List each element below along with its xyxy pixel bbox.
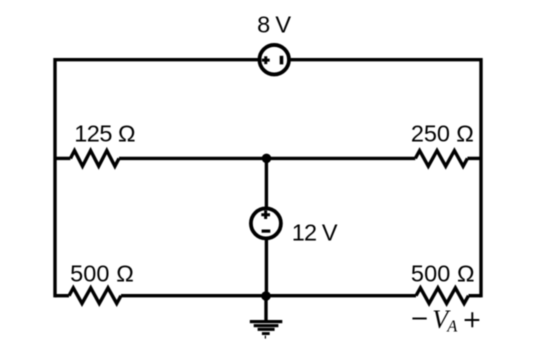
svg-text:8 V: 8 V bbox=[257, 11, 291, 37]
svg-text:12 V: 12 V bbox=[292, 220, 338, 246]
resistor 125 ohm bbox=[70, 151, 119, 167]
plus sign of VA bbox=[465, 312, 480, 327]
wire right rail bbox=[479, 58, 482, 297]
resistor 250 ohm bbox=[415, 151, 467, 167]
svg-text:125 Ω: 125 Ω bbox=[74, 120, 135, 146]
node junction middle bbox=[262, 154, 272, 164]
resistor 500 ohm right bbox=[416, 288, 469, 304]
voltage source 12V bbox=[251, 208, 281, 238]
wire bottom rail left segment bbox=[55, 294, 69, 297]
svg-text:A: A bbox=[446, 317, 458, 336]
wire top rail bbox=[55, 58, 481, 61]
wire bottom rail center segment bbox=[121, 294, 416, 297]
voltage source 8V bbox=[259, 45, 289, 74]
svg-text:500 Ω: 500 Ω bbox=[70, 260, 134, 286]
wire ground stub bbox=[264, 296, 267, 320]
label minus VA plus bbox=[412, 305, 479, 336]
node junction bottom (ground node) bbox=[261, 291, 271, 301]
resistor 500 ohm left bbox=[69, 288, 121, 304]
wire center vertical branch bbox=[265, 158, 268, 295]
wire middle rail left segment bbox=[55, 157, 70, 160]
wire bottom rail right segment bbox=[469, 294, 482, 297]
wire middle rail center segment bbox=[119, 157, 415, 160]
svg-text:500 Ω: 500 Ω bbox=[411, 260, 475, 286]
wire middle rail right segment bbox=[467, 157, 481, 160]
ground symbol bbox=[250, 320, 282, 339]
minus sign of VA bbox=[412, 318, 426, 320]
wire left rail bbox=[53, 58, 56, 297]
svg-text:250 Ω: 250 Ω bbox=[411, 120, 474, 146]
